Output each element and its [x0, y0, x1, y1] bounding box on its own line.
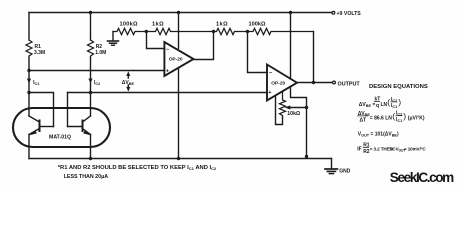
wire U2 V- pin to ground rail: [291, 88, 307, 157]
svg-text:SeekIC.com: SeekIC.com: [390, 170, 454, 185]
svg-text:ΔT: ΔT: [360, 117, 367, 123]
wire Q2 emitter to bottom rail: [90, 135, 92, 159]
svg-text:3.3M: 3.3M: [34, 50, 45, 56]
wire R1 to Q1 collector: [28, 58, 30, 117]
IC2 current arrow: [88, 79, 92, 84]
svg-text:(μV/°K): (μV/°K): [408, 116, 425, 122]
node output feedback junction: [312, 81, 315, 84]
svg-text:= 10mV/°C: = 10mV/°C: [404, 147, 426, 152]
svg-text:LESS THAN 20μA: LESS THAN 20μA: [64, 174, 109, 180]
resistor 1k (stage 2 input): [214, 28, 248, 34]
pot wiper arrow: [289, 107, 307, 109]
svg-text:IF: IF: [357, 147, 361, 153]
node wire1 VBE1 junction: [27, 69, 30, 72]
svg-text:+: +: [268, 90, 272, 96]
wire top rail +9V: [29, 12, 332, 14]
node wiper junction: [305, 106, 308, 109]
wire pot lower end to null pin: [276, 96, 283, 125]
wire R2 to Q2 collector: [90, 58, 92, 117]
svg-text:+9 VOLTS: +9 VOLTS: [337, 11, 362, 17]
svg-text:): ): [398, 97, 401, 107]
svg-text:1kΩ: 1kΩ: [152, 21, 164, 27]
wire node C to U1 inverting input: [147, 32, 165, 49]
svg-text:OP-20: OP-20: [169, 57, 183, 63]
svg-text:IC2: IC2: [94, 80, 100, 86]
wire U2 output: [297, 82, 332, 84]
node top rail U2 V+ junction: [289, 11, 292, 14]
node U1 V- bottom rail junction: [177, 157, 180, 160]
wire Q2 base riser: [67, 93, 69, 127]
svg-text:IC1: IC1: [33, 80, 39, 86]
resistor R1 3.3M: [26, 40, 32, 58]
wire U2 V+ supply: [290, 13, 292, 79]
ground GND: [325, 168, 338, 170]
wire feedback riser to output node: [313, 32, 315, 83]
svg-text:OUTPUT: OUTPUT: [338, 81, 361, 87]
svg-text:q: q: [376, 103, 379, 109]
equation 4: [357, 143, 426, 155]
wire rail to R2: [90, 13, 92, 41]
svg-text:100kΩ: 100kΩ: [120, 21, 138, 27]
wire bottom ground rail: [29, 158, 332, 160]
IC1 current arrow: [27, 79, 31, 84]
wire U1 V+ supply: [178, 13, 180, 49]
equation 1: [359, 97, 401, 110]
transistor Q1: [39, 121, 41, 132]
svg-text:100kΩ: 100kΩ: [249, 21, 266, 27]
node B junction: [246, 30, 249, 33]
ΔVBE measurement arrow: [127, 75, 129, 79]
svg-text:10kΩ: 10kΩ: [287, 111, 300, 117]
node C junction: [145, 30, 148, 33]
svg-text:ΔVBE: ΔVBE: [122, 80, 135, 86]
svg-text:1kΩ: 1kΩ: [216, 21, 228, 27]
svg-text:IC1: IC1: [391, 103, 397, 109]
wire VBE2 node to op-amp U2 + input: [68, 92, 268, 94]
+9V terminal: [332, 11, 335, 14]
node top rail U1 V+ junction: [177, 11, 180, 14]
svg-text:1.0M: 1.0M: [95, 50, 106, 56]
svg-text:(: (: [387, 97, 390, 107]
svg-text:*R1 AND R2 SHOULD BE SELECTED: *R1 AND R2 SHOULD BE SELECTED TO KEEP IC…: [58, 165, 217, 171]
wire Q1 emitter to bottom rail: [28, 135, 30, 159]
svg-text:(: (: [392, 111, 395, 121]
svg-text:GND: GND: [339, 169, 351, 175]
wire U1 V- to ground rail: [178, 69, 180, 158]
output terminal: [333, 81, 336, 84]
svg-text:−: −: [166, 47, 170, 53]
resistor R2 1.0M: [88, 40, 94, 58]
op-amp U2 OP-20: [267, 65, 297, 101]
wire left column to R1: [28, 13, 30, 41]
wire rail to ground symbol: [331, 159, 333, 169]
resistor 1k (stage 1 feedback): [146, 28, 214, 34]
svg-text:−: −: [269, 71, 273, 77]
svg-text:MAT-01Q: MAT-01Q: [49, 135, 71, 141]
node top rail wire2 junction: [89, 11, 92, 14]
node wire1 base-row junction: [27, 91, 30, 94]
resistor 100k (stage 1): [113, 28, 146, 34]
node D junction (op1 output node): [212, 30, 215, 33]
node V- bottom rail junction: [305, 155, 308, 158]
node Q2 emitter bottom rail junction: [89, 157, 92, 160]
svg-text:IC1: IC1: [396, 117, 402, 123]
op-amp U1 OP-20: [164, 42, 193, 76]
wire node B to U2 inverting input: [248, 32, 268, 73]
wire VBE1 node to op-amp U1 + input: [29, 70, 164, 72]
svg-text:ΔVBE =: ΔVBE =: [359, 102, 376, 108]
wire U1 output to node D: [194, 32, 214, 60]
wire Q1 base riser: [29, 93, 54, 127]
transistor Q2: [82, 121, 84, 132]
equation 2: [358, 111, 425, 124]
node wire2 base-row junction: [89, 91, 92, 94]
svg-text:DESIGN EQUATIONS: DESIGN EQUATIONS: [369, 84, 428, 90]
svg-text:= 86.6 LN: = 86.6 LN: [370, 116, 392, 122]
transistor pair package MAT-01 (stadium outline): [13, 108, 110, 147]
svg-text:): ): [403, 111, 406, 121]
ground (first stage 100k): [112, 32, 114, 41]
svg-text:OP-20: OP-20: [271, 81, 285, 87]
svg-text:VOUT = 101(ΔVBE): VOUT = 101(ΔVBE): [358, 131, 399, 137]
potentiometer 10k null pot zigzag: [280, 91, 286, 117]
resistor 100k (stage 2 feedback): [248, 28, 313, 34]
